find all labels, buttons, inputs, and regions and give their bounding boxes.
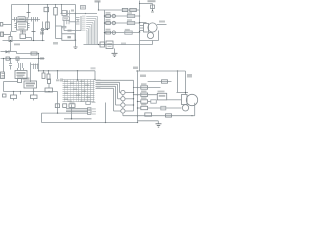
capacitor C5 [20,34,26,39]
label [121,43,126,46]
wire [138,101,141,103]
label Y1 [71,10,74,12]
wire row1 [99,9,140,11]
node tick [27,12,31,14]
wire [148,81,172,83]
transistor Q2 [112,14,115,17]
diode D2 [127,14,134,17]
label R20 [141,83,147,85]
wire [10,32,12,37]
crystal Y1 [62,11,67,16]
wire [4,34,11,36]
node [191,115,192,116]
capacitor C4 [35,17,37,22]
capacitor C10 [67,10,69,16]
label U1 [20,31,26,33]
wire bottom rail [42,122,138,124]
label net [95,0,101,2]
wire [63,28,65,31]
capacitor C13 [9,63,12,65]
node [13,91,14,92]
wire [38,59,40,65]
wire row3 [105,22,140,24]
pin wire P5 [82,26,85,27]
wire power bus [39,70,96,72]
diode D7 [6,57,10,60]
wire [134,94,158,96]
label GND [14,44,20,46]
connector J2 [0,23,3,27]
wire main vertical [137,71,139,123]
capacitor C3 [31,17,33,22]
capacitor C12 [31,52,37,55]
wire [4,81,18,83]
pin wire P0 [82,16,85,17]
connector J5 [182,95,188,105]
node [33,40,34,41]
motor M2 inner [182,105,188,111]
wire [1,51,17,53]
wire [47,5,49,30]
wire main right bus [139,1,141,72]
wire collector bus [133,80,135,111]
wire [140,40,159,42]
inductor L1 [81,6,86,10]
comparator U4 [24,81,37,88]
resistor R22 [141,100,148,103]
node [38,53,39,54]
power +5V [140,3,153,5]
wire [12,31,17,33]
node [98,9,99,10]
motor M1 inner [147,32,153,38]
transistor Q4 [112,31,115,34]
wire bus corner [94,71,96,80]
capacitor C8 [76,17,80,19]
wire [33,22,35,41]
wire [61,26,63,34]
wire osc rail [61,13,98,15]
wire cap row [12,19,40,21]
node [47,29,48,30]
wire [31,64,39,66]
motor M2 [186,94,197,105]
wire [125,98,133,100]
wire [38,54,40,59]
op-amp U1 box [17,22,28,30]
wire [194,103,196,116]
wire [38,65,40,71]
diode D4 [125,31,132,34]
resistor R6 [13,92,15,96]
wire power bus right [136,70,186,72]
label U5 [158,91,165,93]
wire [158,31,160,41]
capacitor C15 [33,64,35,70]
wire sense rail [4,91,58,93]
pin stubs U1 left [15,23,17,25]
label D3 [127,19,132,21]
label [133,67,138,70]
wire L-top [96,79,134,81]
pin wire P2 [82,20,85,21]
diode D11 [122,8,128,11]
capacitor C16 [45,88,53,92]
wire L3 [96,85,116,87]
wire [30,63,32,83]
wire [11,5,13,32]
diode D8 [18,79,22,83]
label [40,32,44,35]
label R12 [106,29,111,31]
connector J3 [144,24,149,33]
resonator X1 [18,17,25,22]
transistor Q5 [121,90,125,94]
capacitor C20 [166,114,172,117]
wire L4 [96,87,114,89]
resistor R20 [141,86,148,89]
thermistor RT1 [48,79,51,84]
wire [56,25,62,27]
label D2 [127,12,132,14]
wire [123,115,195,117]
wire [114,49,116,54]
wire gnd rail 2 [1,58,45,60]
capacitor C9 [76,21,80,23]
ground stub [75,40,77,46]
capacitor C14 [18,63,20,68]
pin stubs U1 right [28,23,30,25]
pin wire P7 [82,30,85,31]
transistor Q7 [121,103,125,107]
node [38,58,39,59]
wire [75,5,77,41]
capacitor C18 [161,106,166,110]
capacitor C17 [86,101,91,104]
wire ribbon 2 [66,109,88,111]
wire [55,15,57,39]
wire [10,59,12,64]
node [133,92,134,93]
wire [140,22,147,24]
pin wire P6 [82,28,85,29]
diode D1 [44,7,49,11]
wire [63,21,65,27]
node [185,92,186,93]
wire [61,5,63,14]
wire bottom gnd rail [3,40,45,42]
resistor R3 [54,8,58,16]
label +12V [187,74,192,78]
wire [20,92,22,95]
wire [17,59,19,64]
resistor R21 [141,93,148,96]
wire [105,103,107,123]
label pins [97,79,101,80]
node grid joins [77,79,78,80]
label U6 [68,30,72,32]
resistor R9 [63,104,67,108]
pin wires motor [140,25,144,27]
wire [3,82,5,92]
label [40,57,44,60]
wire emitter chain [122,95,124,97]
wire [69,21,77,23]
wire [138,107,141,109]
label R10 [106,12,111,14]
wire [41,29,48,31]
resistor R7 [33,89,35,96]
wire [77,20,79,23]
wire [64,118,92,120]
wire top rail VCC [12,4,76,6]
pin wire P4 [82,24,85,25]
wire [10,42,12,52]
capacitor C22 [62,25,67,27]
wire bus vertical [104,10,106,45]
wire [57,92,59,114]
regulator U3 [15,71,27,79]
wire [125,110,133,112]
capacitor C19 [145,113,152,116]
wire [28,5,30,18]
node [75,13,76,14]
wire [134,87,161,89]
wire [22,30,24,34]
resistor R1 [9,37,12,42]
node [104,15,105,16]
resistor R12 [106,31,111,34]
label [53,42,58,45]
label [92,102,96,103]
diode D3 [127,21,134,24]
wire [185,71,187,95]
node [137,101,138,102]
node [137,70,138,71]
capacitor C2 [25,17,27,22]
label R11 [106,19,111,21]
resistor R11 [106,22,111,25]
capacitor C6 [41,28,44,30]
capacitor C7 [66,20,68,25]
node [137,87,138,88]
wire [3,24,12,26]
wire [122,113,124,116]
relay K1 [106,41,113,49]
transistor Q8 [121,109,125,113]
wire [42,22,44,29]
wire row4 [105,32,140,34]
wire [55,5,57,8]
wire matrix labels [64,81,68,82]
wire matrix verticals right [78,80,80,102]
wire [56,38,62,40]
resistor R8 [55,104,59,108]
capacitor C11 [100,42,105,47]
node [139,22,140,23]
transistor Q6 [121,97,125,101]
node [104,32,105,33]
resistor R2 [46,22,50,29]
wire [125,104,133,106]
wire [167,99,182,101]
label bus [91,67,96,69]
wire [177,71,179,93]
capacitor C21 [151,100,157,103]
wire matrix horizontals [63,79,95,81]
pin stubs U3 [17,68,19,71]
wire [152,41,154,45]
wire [26,37,32,39]
wire [177,92,189,94]
diode D9 [69,104,75,108]
label D4 [125,29,130,31]
ground [157,121,159,124]
connector J1 [1,32,4,37]
label [159,21,165,23]
resistor R23 [141,106,148,109]
ground [112,52,118,54]
resistor R4 [43,71,45,73]
wire relay row [84,44,153,46]
capacitor C1 [14,17,16,22]
node [104,22,105,23]
wire [3,59,5,73]
wire ribbon 4 [43,112,88,114]
wire row2 [105,15,140,17]
label R21 [141,91,147,93]
wire L1 [96,81,120,83]
label [60,79,63,82]
wire [125,92,133,94]
pin wire P1 [82,18,85,19]
label R22 [141,97,147,99]
connector J4 [88,108,92,115]
node [152,10,153,11]
oscillator box [63,17,70,21]
label [92,108,96,109]
wire [77,71,79,80]
amplifier U6 box [62,34,75,41]
node [104,44,105,45]
pin wire P3 [82,22,85,23]
wire ribbon 3 [66,111,88,113]
diode D10 [162,80,168,83]
wire [16,52,18,54]
driver U5 [157,93,166,100]
diode D12 [130,8,137,11]
resistor R10 [106,15,111,18]
wire [71,105,73,119]
resistor R30 [3,94,7,97]
resistor R5 [48,71,50,74]
wire [42,112,43,114]
wire stub [57,71,59,79]
motor M1 [148,23,157,32]
node [57,112,58,113]
wire [138,120,159,122]
node [38,70,39,71]
node rail joints [28,4,29,5]
label R23 [141,104,147,106]
transistor Q3 [112,21,115,24]
label [23,78,30,80]
wire ribbon 1 [66,108,88,110]
wire matrix verticals left [64,80,66,102]
fuse F1 [16,57,19,60]
wire L2 [96,83,118,85]
node tick [32,31,36,33]
wire [98,2,100,11]
wire [157,24,167,26]
diode D6 [6,50,10,53]
wire MCU edge [80,16,82,31]
battery BT1 [1,72,5,79]
